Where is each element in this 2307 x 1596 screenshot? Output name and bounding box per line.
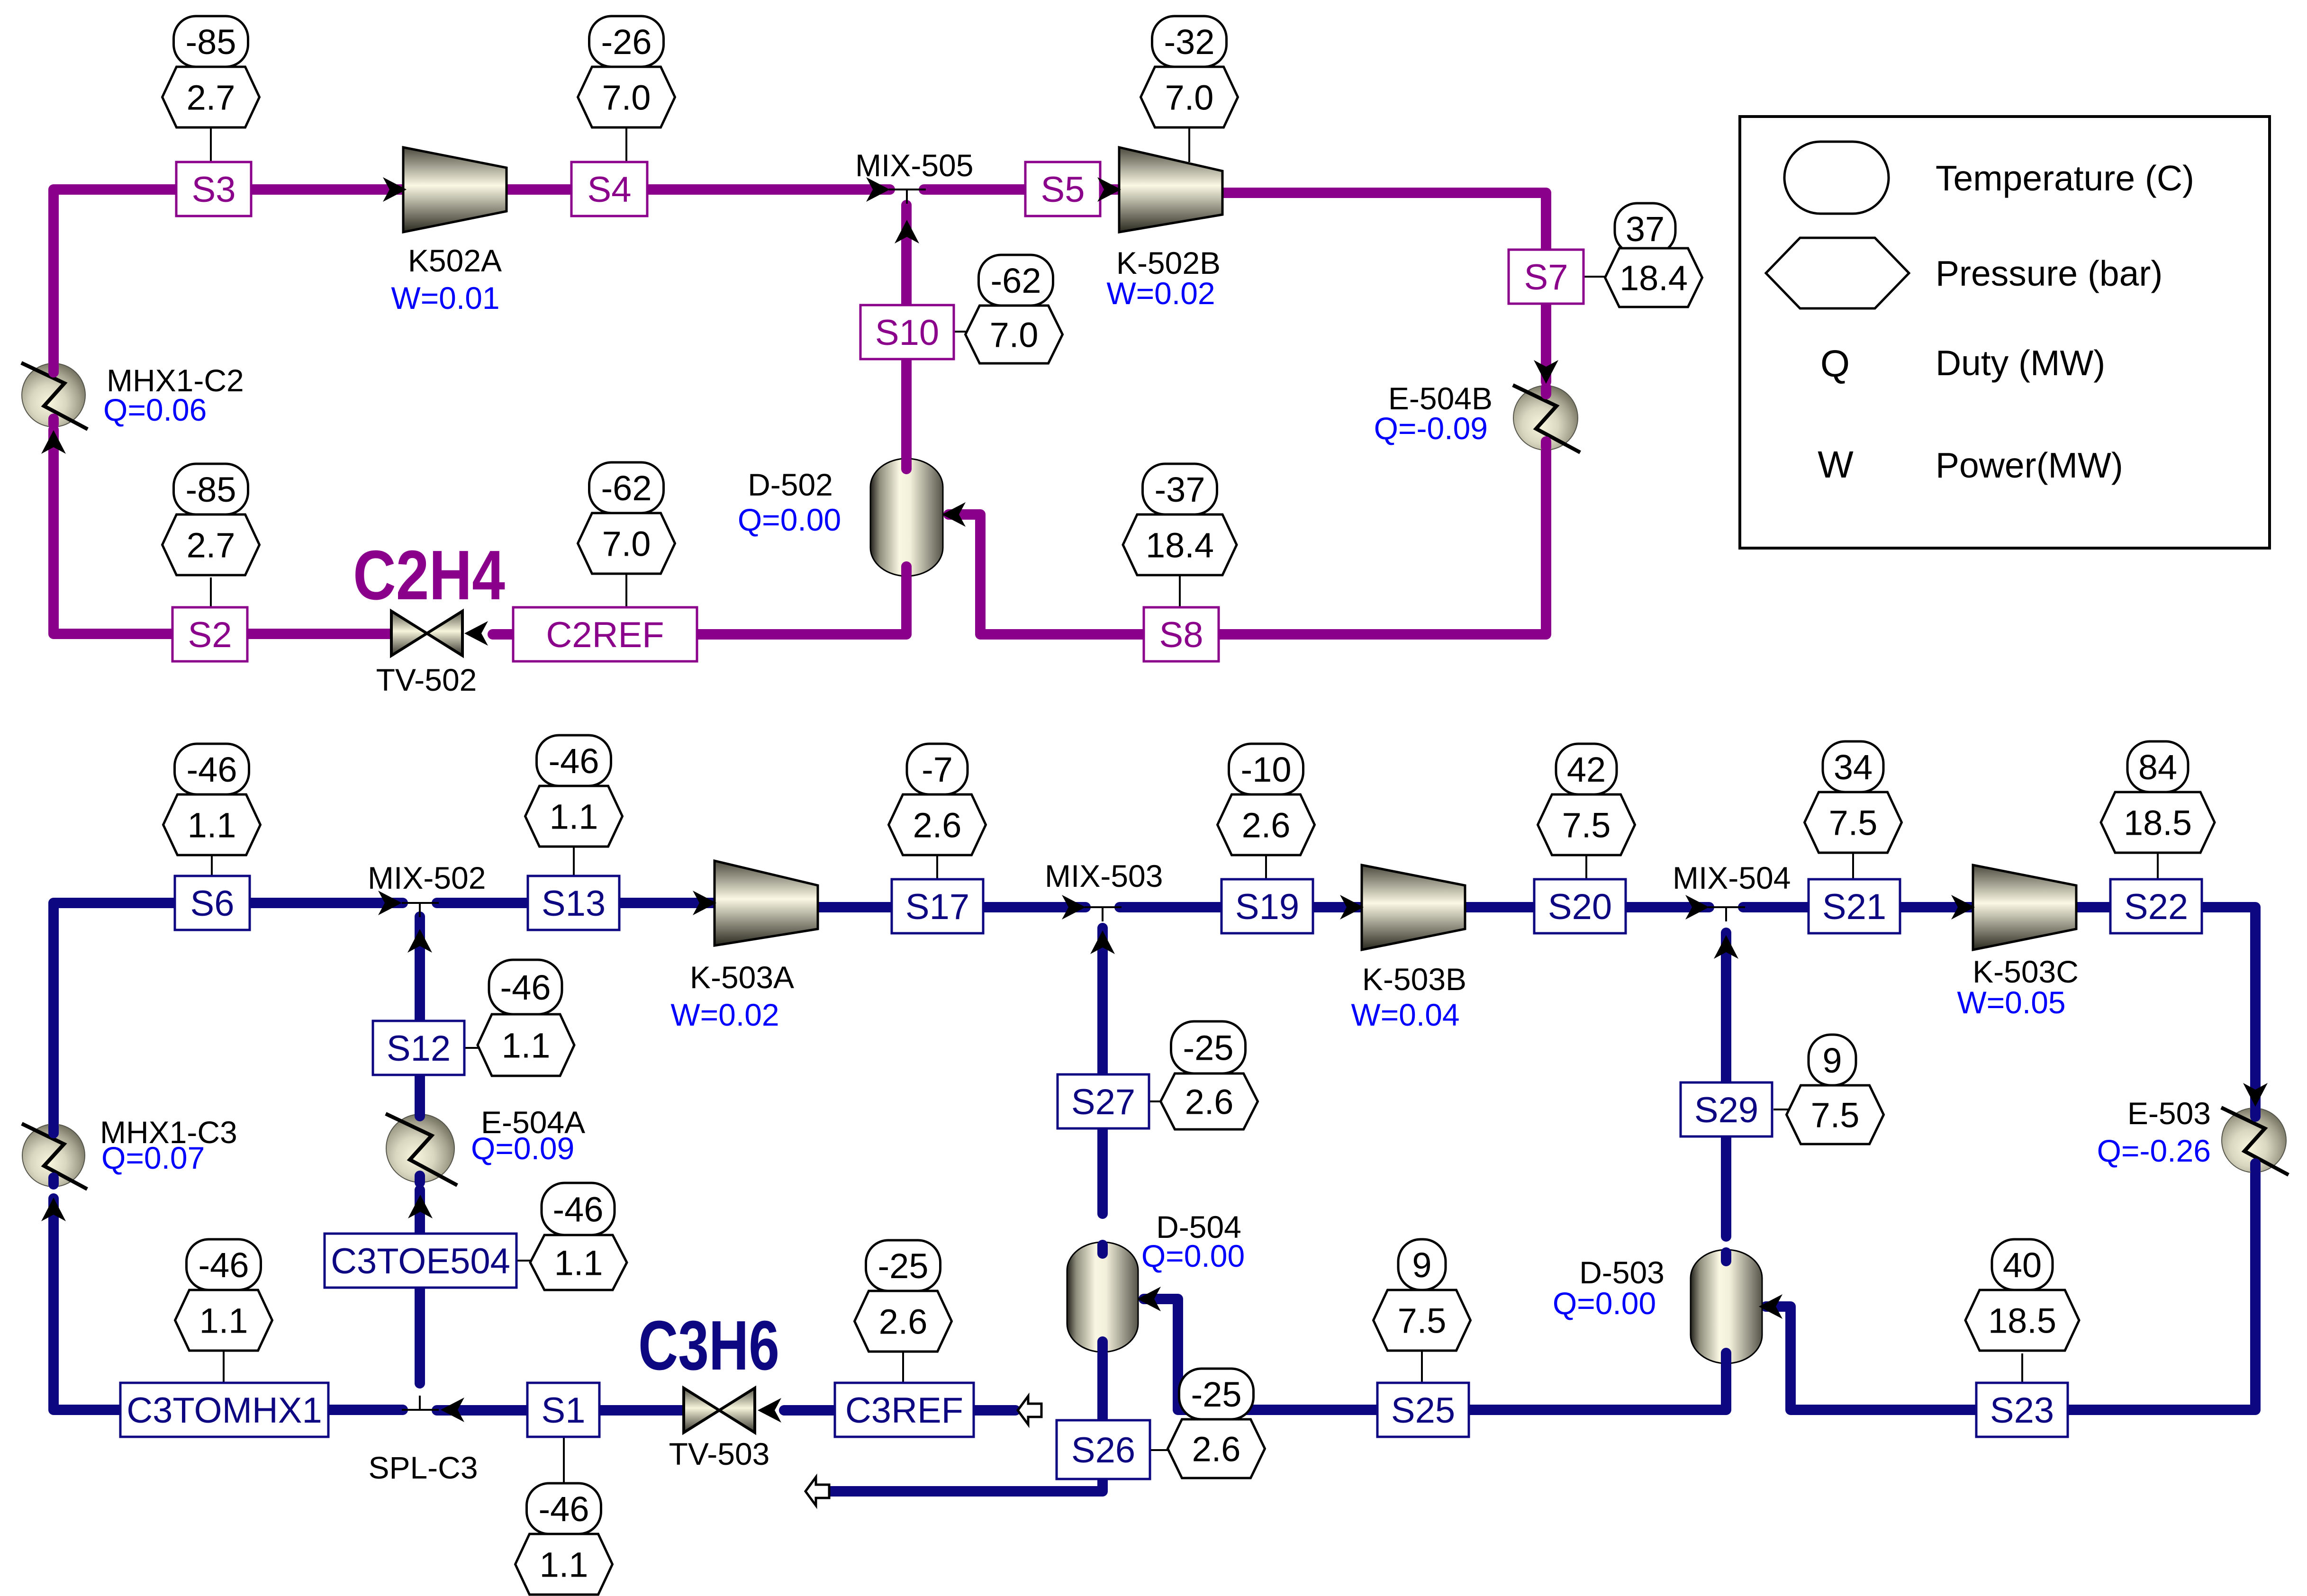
svg-text:S20: S20 (1548, 887, 1612, 927)
node C3TOMHX1 tag temperature (187, 1239, 261, 1290)
wire tag-link S8 (1179, 576, 1181, 607)
node S7 tag pressure (1605, 248, 1702, 307)
svg-text:-10: -10 (1241, 750, 1292, 789)
compressor K-503C (1973, 865, 2076, 950)
wire K-502B to S7 to E-504B (1222, 193, 1546, 382)
svg-text:7.5: 7.5 (1811, 1095, 1860, 1135)
svg-text:Q=0.00: Q=0.00 (1553, 1286, 1656, 1321)
compressor K-502B (1119, 147, 1222, 232)
node C2REF stream label (513, 607, 697, 661)
wire K502A to S4 to MIX-505 (507, 184, 890, 195)
node C3REF tag pressure (855, 1291, 952, 1352)
wire E-503 to S23 to D-503 feed (1766, 1171, 2255, 1410)
node S4 stream label (571, 162, 647, 216)
svg-text:S22: S22 (2124, 887, 2188, 927)
node S13 tag temperature (537, 735, 611, 786)
wire MIX-505 to S5 to K-502B (924, 184, 1121, 195)
arrow into K-503B (1340, 895, 1364, 920)
node S5 stream label (1025, 162, 1100, 216)
svg-text:S29: S29 (1694, 1090, 1758, 1130)
svg-text:2.7: 2.7 (187, 78, 235, 117)
node S6 tag pressure (163, 794, 261, 855)
svg-text:S26: S26 (1071, 1430, 1135, 1470)
node S20 tag temperature (1556, 744, 1617, 794)
svg-text:7.0: 7.0 (602, 524, 651, 563)
node S25 stream label (1377, 1383, 1469, 1437)
node C3TOE504 tag pressure (530, 1235, 627, 1290)
arrow into D-504 (1137, 1287, 1161, 1311)
svg-text:Q=0.06: Q=0.06 (103, 392, 207, 427)
node S20 tag pressure (1538, 794, 1635, 855)
off-page connector arrow S26 outlet (805, 1477, 829, 1506)
svg-text:-46: -46 (187, 750, 237, 789)
svg-text:-26: -26 (601, 22, 652, 62)
wire tag-link S17 (936, 853, 938, 879)
wire tag-link C3REF (902, 1353, 904, 1383)
svg-text:Power(MW): Power(MW) (1936, 445, 2123, 485)
wire D-504 bottom to S26 line (830, 1354, 1103, 1491)
svg-text:9: 9 (1412, 1245, 1431, 1285)
wire D-503 bottom to S25 to D-504 feed (1144, 1299, 1726, 1410)
wire tag-link S1 (563, 1437, 565, 1483)
node S23 stream label (1976, 1383, 2068, 1437)
svg-text:7.5: 7.5 (1398, 1301, 1447, 1340)
node C3REF stream label (835, 1383, 974, 1437)
node S25 tag pressure (1374, 1290, 1471, 1351)
arrow into MIX-502 (378, 891, 402, 915)
node S22 stream label (2110, 879, 2202, 933)
node S3 stream label (176, 162, 251, 216)
svg-text:-85: -85 (186, 470, 236, 509)
wire D-502 bottom to C2REF (697, 576, 906, 634)
svg-text:2.6: 2.6 (879, 1302, 928, 1341)
node MIX-505 junction (889, 189, 926, 204)
svg-text:40: 40 (2003, 1245, 2042, 1285)
svg-text:Q=0.00: Q=0.00 (738, 502, 841, 537)
node S8 stream label (1144, 607, 1219, 661)
svg-text:TV-502: TV-502 (376, 662, 477, 697)
svg-text:-62: -62 (601, 469, 652, 508)
svg-text:S7: S7 (1524, 257, 1568, 298)
node C3TOMHX1 stream label (120, 1383, 328, 1437)
node S17 tag temperature (907, 744, 968, 794)
legend temperature symbol (1784, 142, 1889, 214)
wire E-503 top port (2250, 1110, 2261, 1117)
node MIX-503 junction (1085, 907, 1122, 921)
wire D-504 bottom port (1097, 1342, 1108, 1350)
svg-text:C3REF: C3REF (845, 1390, 963, 1431)
svg-text:C2H4: C2H4 (353, 536, 505, 614)
node C3REF tag temperature (866, 1240, 941, 1291)
wire MHX1-C2 top port (48, 366, 59, 372)
arrow into MIX-504 (1685, 895, 1709, 920)
node C2REF tag pressure (578, 513, 675, 574)
svg-text:1.1: 1.1 (540, 1545, 588, 1584)
svg-text:S8: S8 (1159, 615, 1203, 655)
node S13 stream label (528, 876, 619, 930)
wire SPL-C3 up to C3TOE504 (415, 1288, 425, 1383)
svg-text:E-503: E-503 (2127, 1096, 2211, 1131)
node S19 stream label (1221, 879, 1313, 933)
wire C3REF feed stub (974, 1405, 1015, 1416)
vessel D-504 (1067, 1242, 1138, 1352)
node S2 tag temperature (174, 464, 248, 514)
svg-text:C3H6: C3H6 (638, 1307, 779, 1385)
svg-text:-25: -25 (1191, 1375, 1242, 1414)
node S21 tag pressure (1805, 792, 1902, 853)
wire E-504A to S12 to MIX-502 (415, 917, 425, 1114)
svg-text:C2REF: C2REF (546, 615, 664, 655)
node S4 tag pressure (578, 67, 675, 127)
node S13 tag pressure (525, 786, 623, 847)
node S23 tag temperature (1992, 1239, 2053, 1290)
svg-text:Q=0.07: Q=0.07 (101, 1140, 205, 1175)
wire D-503 bottom port (1721, 1353, 1731, 1362)
vessel D-503 (1691, 1250, 1762, 1363)
wire E-504B to S8 to D-502 (949, 449, 1546, 634)
svg-text:MIX-502: MIX-502 (368, 860, 486, 895)
node S26 stream label (1057, 1420, 1150, 1479)
wire MHX1-C2 bottom port (48, 419, 59, 424)
wire tag-link S19 (1265, 853, 1267, 879)
svg-text:-7: -7 (922, 750, 953, 789)
node SPL-C3 junction (402, 1396, 439, 1410)
svg-text:18.5: 18.5 (2124, 803, 2192, 842)
svg-text:W=0.04: W=0.04 (1351, 997, 1459, 1032)
heat exchanger E-503 (2221, 1108, 2289, 1175)
wire E-503 bottom port (2250, 1163, 2261, 1170)
svg-text:S13: S13 (542, 884, 606, 924)
wire MIX-502 to S13 to K-503A (437, 898, 715, 908)
svg-text:C3TOMHX1: C3TOMHX1 (127, 1390, 322, 1431)
compressor K-503A (715, 861, 818, 946)
node S7 stream label (1509, 250, 1583, 304)
node S26 tag temperature (1179, 1369, 1254, 1419)
svg-text:S17: S17 (905, 887, 969, 927)
node S2 stream label (172, 607, 247, 661)
svg-text:-46: -46 (199, 1245, 249, 1285)
wire tag-link C3TOMHX1 (223, 1347, 225, 1383)
node S29 tag pressure (1787, 1085, 1884, 1144)
wire MIX-503 to S19 to K-503B (1120, 902, 1362, 912)
svg-text:S12: S12 (387, 1028, 451, 1069)
svg-text:W=0.05: W=0.05 (1957, 985, 2065, 1020)
svg-text:K-503C: K-503C (1972, 954, 2079, 989)
svg-text:9: 9 (1822, 1041, 1842, 1080)
node S3 tag temperature (174, 16, 248, 67)
node S3 tag pressure (163, 67, 260, 127)
wire tag-link S4 (625, 128, 627, 162)
arrow into MIX-505 (866, 177, 890, 202)
wire tag-link S29 (1773, 1109, 1790, 1110)
svg-text:84: 84 (2138, 748, 2177, 787)
node S10 tag pressure (966, 306, 1063, 363)
arrow into E-503 (2243, 1083, 2268, 1107)
wire E-504B bottom port (1541, 442, 1551, 447)
wire K-503A to S17 to MIX-503 (818, 902, 1086, 912)
compressor K-503B (1362, 865, 1465, 950)
node S23 tag pressure (1965, 1290, 2079, 1351)
svg-text:W=0.02: W=0.02 (1106, 276, 1215, 311)
valve TV-502 (391, 611, 462, 656)
node S25 tag temperature (1398, 1239, 1446, 1290)
node S7 tag temperature (1615, 203, 1675, 254)
arrow into K502A (383, 177, 407, 202)
svg-text:42: 42 (1567, 750, 1606, 789)
svg-text:1.1: 1.1 (502, 1026, 551, 1065)
svg-text:2.6: 2.6 (1185, 1082, 1234, 1121)
node S27 stream label (1058, 1074, 1149, 1128)
svg-text:W=0.02: W=0.02 (670, 997, 779, 1032)
svg-text:K-503A: K-503A (690, 960, 794, 995)
wire tag-link S7 (1583, 276, 1607, 278)
svg-text:Q=0.00: Q=0.00 (1141, 1238, 1245, 1273)
wire tag-link S3 (210, 128, 212, 162)
svg-text:18.5: 18.5 (1988, 1301, 2056, 1340)
node S4 tag temperature (589, 16, 664, 67)
wire tag-link S6 (211, 853, 213, 876)
svg-text:D-503: D-503 (1579, 1255, 1665, 1290)
compressor K502A (403, 147, 507, 232)
wire tag-link S26 (1150, 1449, 1168, 1451)
node S27 tag pressure (1161, 1073, 1258, 1129)
wire tag-link S21 (1852, 850, 1854, 879)
wire tag-link S20 (1585, 853, 1587, 879)
svg-text:-85: -85 (186, 22, 236, 62)
svg-text:1.1: 1.1 (199, 1301, 248, 1340)
node S1 tag temperature (527, 1483, 601, 1534)
node S22 tag temperature (2127, 741, 2188, 792)
arrow S29 into MIX-504 (1714, 935, 1738, 959)
wire tag-link S22 (2157, 850, 2159, 879)
svg-text:7.5: 7.5 (1562, 805, 1611, 845)
arrow into K-503C (1951, 895, 1975, 920)
node S17 stream label (892, 879, 983, 933)
svg-text:K-503B: K-503B (1362, 962, 1466, 997)
off-page connector arrow C3REF source (1018, 1396, 1041, 1425)
node S8 tag pressure (1123, 514, 1237, 575)
node S5 tag pressure (1141, 67, 1238, 127)
vessel D-502 (870, 459, 943, 576)
svg-text:7.0: 7.0 (602, 78, 651, 117)
svg-text:D-502: D-502 (748, 467, 833, 502)
wire tag-link S25 (1421, 1349, 1423, 1383)
wire MHX1-C3 to S6 to MIX-502 (54, 903, 403, 1125)
node C3TOE504 stream label (325, 1234, 516, 1288)
svg-text:MIX-503: MIX-503 (1045, 858, 1163, 893)
wire D-504 top to S27 to MIX-503 (1097, 928, 1108, 1214)
node S6 stream label (175, 876, 250, 930)
svg-text:Temperature (C): Temperature (C) (1936, 158, 2194, 198)
wire D-503 top to S29 to MIX-504 (1721, 933, 1731, 1236)
node S22 tag pressure (2101, 792, 2215, 853)
svg-text:S3: S3 (192, 170, 236, 210)
svg-text:-32: -32 (1164, 22, 1215, 62)
node C3TOMHX1 tag pressure (175, 1290, 272, 1351)
legend box (1740, 117, 2270, 548)
svg-text:1.1: 1.1 (554, 1243, 603, 1282)
svg-text:S10: S10 (875, 313, 939, 353)
node S29 stream label (1681, 1082, 1772, 1136)
wire K-503B to S20 to MIX-504 (1465, 902, 1709, 912)
heat exchanger E-504A (386, 1114, 457, 1185)
arrow into MIX-503 (1062, 895, 1086, 920)
svg-text:1.1: 1.1 (188, 805, 236, 845)
arrow into E-504B (1534, 360, 1558, 384)
node S19 tag temperature (1229, 744, 1303, 794)
wire C2REF to TV-502 (493, 629, 513, 640)
wire C3TOE504 to E-504A (415, 1190, 425, 1234)
wire MHX1-C2 to S3 to K502A (54, 189, 403, 364)
arrow S27 into MIX-503 (1090, 930, 1115, 954)
svg-text:S19: S19 (1235, 887, 1299, 927)
svg-text:S21: S21 (1822, 887, 1886, 927)
arrow into K-503A (693, 891, 716, 915)
node S27 tag temperature (1171, 1021, 1246, 1073)
node S1 stream label (527, 1383, 599, 1437)
wire D-502 top to S10 to MIX-505 (901, 205, 912, 459)
svg-text:34: 34 (1834, 748, 1873, 787)
svg-text:-62: -62 (991, 261, 1041, 300)
svg-text:S4: S4 (588, 170, 632, 210)
wire MHX1-C3 bottom port (48, 1178, 59, 1184)
wire MIX-504 to S21 to K-503C (1743, 902, 1973, 912)
wire E-504A top port (415, 1109, 425, 1116)
svg-text:MIX-504: MIX-504 (1673, 860, 1791, 895)
node S19 tag pressure (1218, 794, 1315, 855)
node S5 tag temperature (1152, 16, 1227, 67)
svg-text:-25: -25 (878, 1246, 929, 1286)
wire tag-link S23 (2021, 1353, 2023, 1383)
svg-text:2.7: 2.7 (187, 525, 235, 565)
svg-text:S6: S6 (190, 884, 235, 924)
svg-text:18.4: 18.4 (1619, 258, 1688, 298)
wire K-503C to S22 to E-503 (2076, 907, 2255, 1109)
arrow into D-502 (942, 502, 966, 527)
svg-text:7.5: 7.5 (1829, 803, 1878, 842)
heat exchanger MHX1-C3 (22, 1124, 87, 1189)
wire D-502 bottom port (901, 567, 912, 574)
node S12 tag pressure (478, 1014, 574, 1076)
svg-text:S2: S2 (188, 615, 232, 655)
heat exchanger MHX1-C2 (21, 363, 88, 429)
svg-text:W: W (1818, 443, 1854, 486)
node S2 tag pressure (163, 514, 260, 575)
svg-text:S27: S27 (1071, 1082, 1135, 1122)
node S29 tag temperature (1809, 1035, 1856, 1085)
svg-text:Pressure (bar): Pressure (bar) (1936, 253, 2162, 293)
arrow S1 into SPL-C3 (441, 1398, 464, 1422)
wire TV-503 to S1 to SPL-C3 (437, 1405, 684, 1416)
wire tag-link S5 (1188, 128, 1190, 162)
svg-text:Q=0.09: Q=0.09 (471, 1131, 574, 1166)
svg-text:2.6: 2.6 (1192, 1429, 1241, 1469)
svg-text:K502A: K502A (408, 243, 502, 278)
arrow into TV-503 (758, 1398, 781, 1423)
node S21 tag temperature (1823, 741, 1883, 792)
node C3TOE504 tag temperature (542, 1183, 615, 1235)
svg-text:-46: -46 (500, 968, 551, 1007)
svg-text:-46: -46 (553, 1190, 604, 1229)
wire tag-link C3TOE504 (516, 1260, 531, 1262)
wire D-503 top port (1721, 1253, 1731, 1261)
arrow into E-504A (408, 1195, 433, 1218)
wire tag-link S10 (954, 331, 966, 333)
svg-text:-46: -46 (539, 1489, 589, 1529)
node S26 tag pressure (1168, 1419, 1265, 1478)
svg-text:S1: S1 (542, 1390, 586, 1431)
node MIX-502 junction (402, 903, 439, 917)
svg-text:Q: Q (1820, 343, 1850, 385)
node S8 tag temperature (1143, 464, 1217, 514)
svg-text:37: 37 (1626, 209, 1665, 249)
wire D-502 top port (901, 460, 912, 469)
svg-text:Duty (MW): Duty (MW) (1936, 343, 2105, 383)
svg-text:7.0: 7.0 (990, 315, 1039, 354)
svg-text:SPL-C3: SPL-C3 (368, 1450, 478, 1485)
svg-text:1.1: 1.1 (550, 797, 598, 836)
node S20 stream label (1534, 879, 1626, 933)
svg-text:2.6: 2.6 (1242, 805, 1291, 845)
svg-text:Q=-0.09: Q=-0.09 (1374, 411, 1488, 446)
wire TV-502 to S2 to MHX1-C2 (54, 430, 391, 634)
node S10 tag temperature (979, 255, 1053, 306)
arrow into MHX1-C3 (41, 1198, 66, 1221)
wire MHX1-C3 top port (48, 1127, 59, 1133)
wire tag-link S27 (1149, 1100, 1162, 1102)
svg-text:W=0.01: W=0.01 (391, 280, 499, 316)
arrow S12 into MIX-502 (407, 929, 432, 953)
arrow into TV-502 (464, 621, 488, 646)
svg-text:-46: -46 (549, 741, 599, 781)
svg-text:7.0: 7.0 (1165, 78, 1214, 117)
svg-text:S25: S25 (1391, 1390, 1455, 1431)
svg-text:MIX-505: MIX-505 (855, 148, 973, 183)
svg-text:Q=-0.26: Q=-0.26 (2097, 1133, 2211, 1168)
node S12 tag temperature (489, 960, 562, 1014)
arrow into D-503 (1759, 1294, 1782, 1319)
wire tag-link S12 (464, 1047, 479, 1049)
arrow into K-502B (1097, 177, 1121, 202)
arrow into MHX1-C2 (41, 430, 66, 454)
wire C3REF to TV-503 (784, 1405, 835, 1416)
node S6 tag temperature (175, 744, 249, 794)
node S10 stream label (860, 305, 954, 359)
wire E-504A bottom port (415, 1176, 425, 1182)
svg-text:-25: -25 (1183, 1028, 1234, 1067)
wire tag-link S2 (210, 577, 212, 607)
node S12 stream label (373, 1021, 464, 1075)
svg-text:K-502B: K-502B (1116, 245, 1221, 280)
wire D-504 top port (1097, 1245, 1108, 1253)
node S17 tag pressure (889, 794, 986, 855)
svg-text:2.6: 2.6 (913, 805, 962, 845)
node S1 tag pressure (516, 1534, 613, 1595)
node C2REF tag temperature (589, 462, 664, 513)
svg-text:TV-503: TV-503 (669, 1436, 770, 1471)
svg-text:-37: -37 (1155, 470, 1205, 509)
node MIX-504 junction (1708, 907, 1745, 921)
wire E-504B top port (1541, 388, 1551, 394)
svg-text:S5: S5 (1041, 170, 1085, 210)
wire SPL-C3 to C3TOMHX1 to MHX1-C3 (54, 1199, 403, 1410)
node S21 stream label (1809, 879, 1900, 933)
wire tag-link S13 (573, 840, 575, 876)
svg-text:S23: S23 (1990, 1390, 2054, 1431)
svg-text:18.4: 18.4 (1146, 525, 1214, 565)
legend pressure symbol (1766, 238, 1909, 308)
valve TV-503 (684, 1388, 755, 1433)
